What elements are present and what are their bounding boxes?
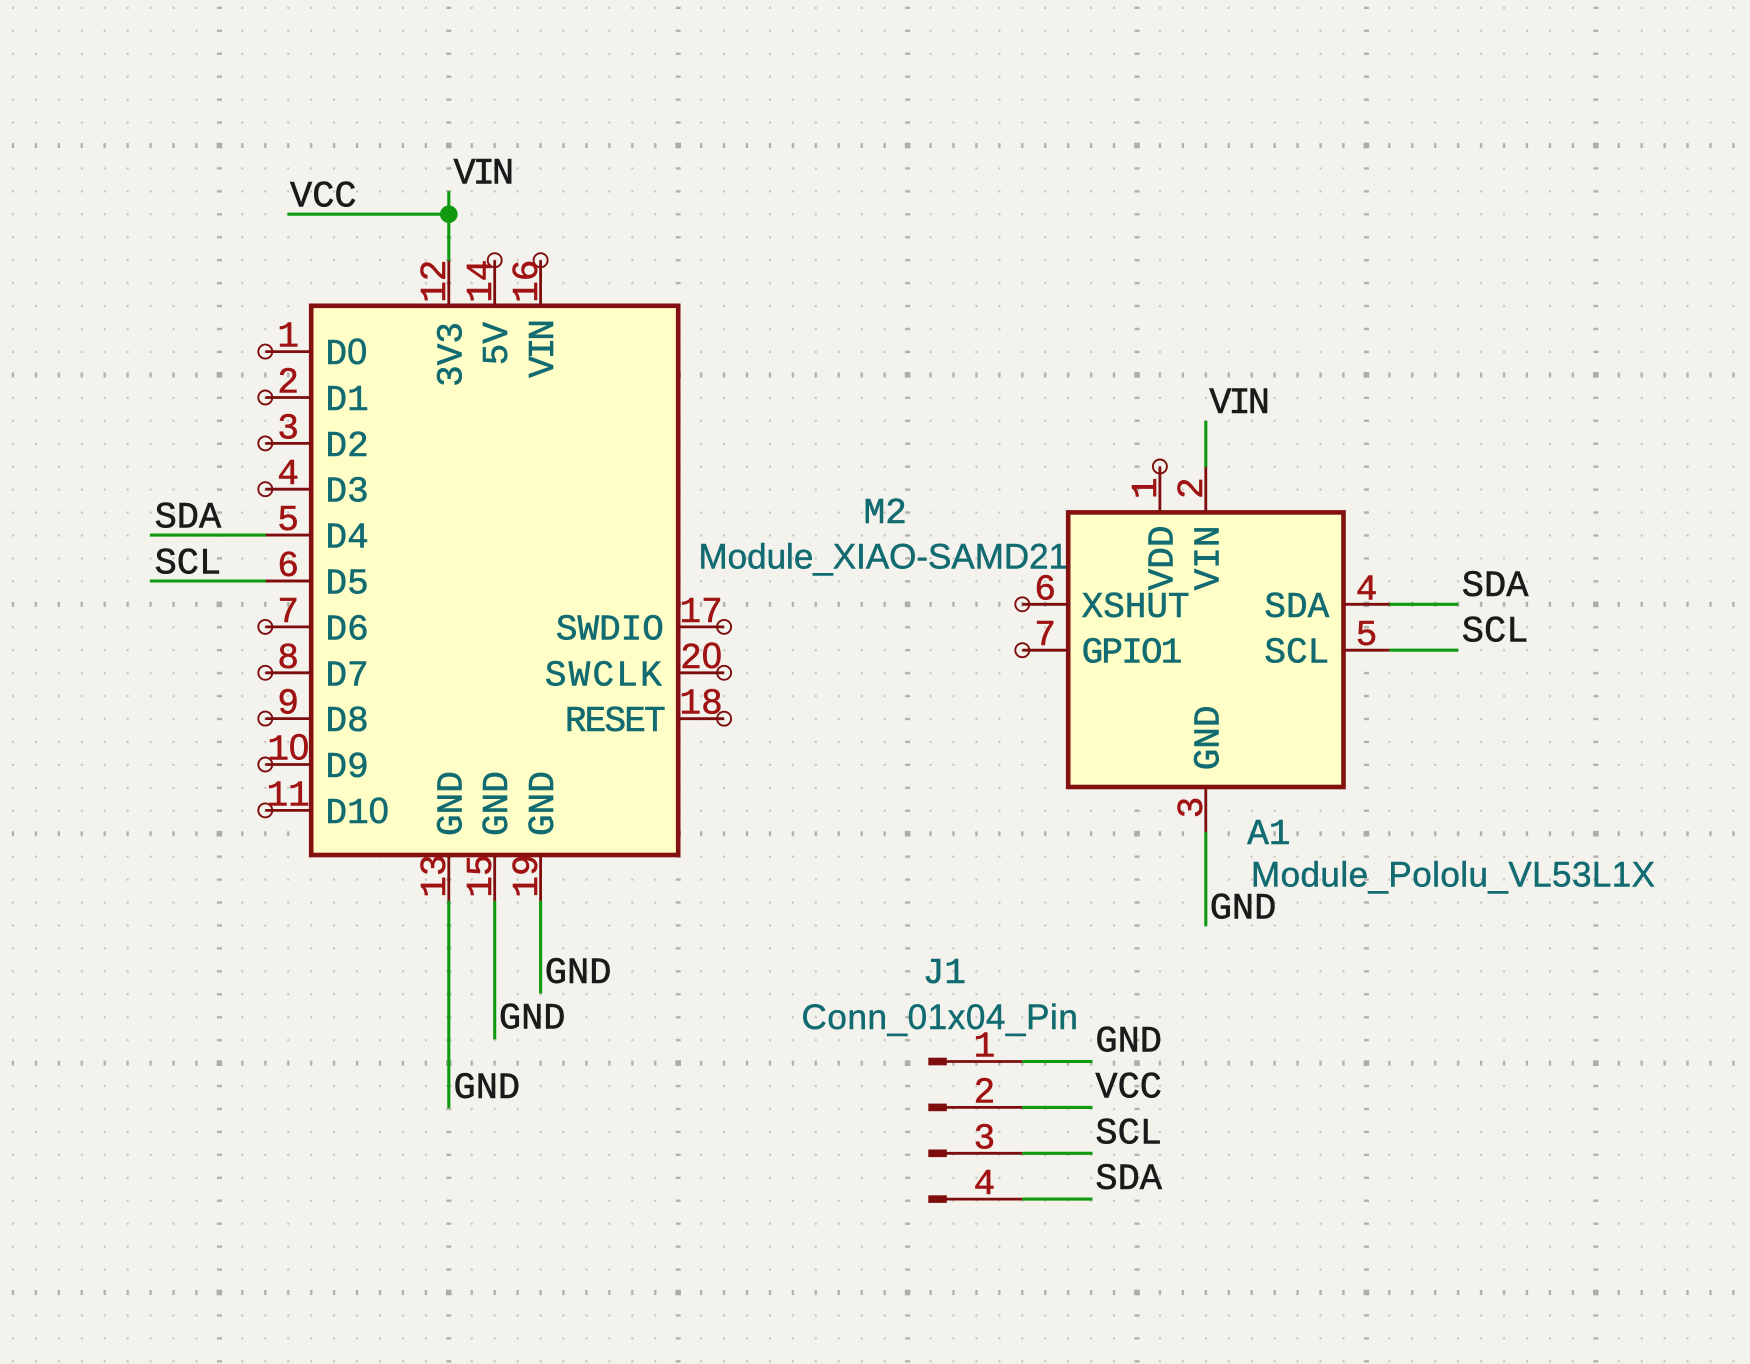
pin 1 of J1 [928,1027,1022,1068]
svg-text:13: 13 [415,854,456,897]
module M2 Module_XIAO-SAMD21 body [311,306,678,855]
pin 20 (SWCLK) of M2 [545,635,731,697]
pin 3 of J1 [928,1118,1022,1159]
svg-text:SDA: SDA [155,498,222,540]
pin 6 (D5) of M2 [265,546,368,605]
svg-text:15: 15 [461,854,502,897]
svg-text:VDD: VDD [1142,526,1183,591]
wire GND from pin 3 of A1 [1204,832,1207,926]
pin 17 (SWDIO) of M2 [556,592,731,651]
pin 4 (SDA) of A1 [1264,569,1389,628]
pin 9 (D8) of M2 [258,684,368,743]
wire SCL from pin 3 of J1 [1022,1152,1092,1155]
pin 4 of J1 [928,1164,1022,1205]
wire VIN to pin 2 of A1 [1204,421,1207,467]
svg-text:GND: GND [1188,705,1229,770]
pin 5 (SCL) of A1 [1264,615,1389,674]
svg-text:SWDIO: SWDIO [556,609,664,650]
svg-text:3: 3 [974,1118,996,1159]
svg-text:D3: D3 [326,472,369,513]
pin 6 (XSHUT) of A1 [1015,569,1189,628]
svg-text:SCL: SCL [155,543,222,585]
svg-text:12: 12 [415,260,456,303]
svg-text:19: 19 [507,854,548,897]
svg-text:SWCLK: SWCLK [545,655,664,696]
svg-text:RESET: RESET [565,701,665,742]
svg-text:GND: GND [431,771,472,836]
svg-text:3V3: 3V3 [431,322,472,387]
svg-text:7: 7 [277,592,299,633]
svg-text:2: 2 [974,1072,996,1113]
svg-text:Module_Pololu_VL53L1X: Module_Pololu_VL53L1X [1251,856,1655,895]
svg-text:D8: D8 [326,701,369,742]
wire SDA from pin 4 of A1 [1389,603,1458,606]
junction at pin 12 [440,205,458,223]
svg-text:16: 16 [507,260,548,303]
svg-text:Conn_01x04_Pin: Conn_01x04_Pin [802,998,1079,1037]
svg-text:VCC: VCC [1095,1067,1162,1109]
pin 3 (GND) of A1 [1172,705,1230,831]
svg-text:M2: M2 [864,493,907,534]
pin 2 (D1) of M2 [258,363,368,422]
svg-text:5V: 5V [477,322,518,366]
pin 7 (D6) of M2 [258,592,368,651]
pin 2 of J1 [928,1072,1022,1113]
svg-text:J1: J1 [923,953,966,994]
svg-text:8: 8 [277,638,299,679]
svg-text:VIN: VIN [523,322,564,378]
pin 8 (D7) of M2 [258,638,368,697]
pin 10 (D9) of M2 [258,727,368,789]
svg-text:GND: GND [499,999,566,1041]
svg-text:9: 9 [277,684,299,725]
svg-text:4: 4 [277,454,299,495]
pin 1 (D0) of M2 [258,317,367,376]
svg-text:D6: D6 [326,609,369,650]
svg-text:6: 6 [1034,569,1056,610]
svg-text:4: 4 [974,1164,996,1205]
svg-text:GND: GND [454,1068,521,1110]
svg-text:VIN: VIN [454,154,512,196]
svg-text:1: 1 [1126,477,1167,499]
wire GND from pin 1 of J1 [1022,1060,1092,1063]
svg-text:VCC: VCC [290,177,357,219]
svg-text:7: 7 [1034,615,1056,656]
svg-text:D5: D5 [326,564,369,605]
wire SCL to pin 6 [150,579,267,582]
svg-text:2: 2 [277,363,299,404]
svg-text:GND: GND [545,953,612,995]
svg-text:SDA: SDA [1462,566,1529,608]
svg-text:XSHUT: XSHUT [1082,587,1190,628]
svg-text:SCL: SCL [1095,1113,1162,1155]
pin 11 (D10) of M2 [258,775,388,834]
wire VCC from pin 2 of J1 [1022,1106,1092,1109]
svg-text:4: 4 [1356,569,1378,610]
svg-text:10: 10 [267,727,309,771]
svg-text:3: 3 [1172,797,1213,819]
svg-text:5: 5 [1356,615,1378,656]
svg-text:11: 11 [267,775,310,816]
wire GND from pin 13 [447,901,450,1108]
svg-text:D10: D10 [326,790,389,834]
wire GND from pin 19 [539,901,542,994]
wire VCC to pin 12 [287,213,448,216]
pin 15 (GND) of M2 [461,771,518,901]
svg-text:D1: D1 [326,380,369,421]
svg-text:D0: D0 [326,331,368,375]
pin 12 (3V3) of M2 [415,260,472,387]
svg-text:VIN: VIN [1209,383,1267,425]
svg-text:GND: GND [477,771,518,836]
svg-text:GND: GND [523,771,564,836]
svg-text:3: 3 [277,408,299,449]
svg-text:D2: D2 [326,426,369,467]
pin 16 (VIN) of M2 [507,253,564,378]
svg-text:GND: GND [1210,889,1277,931]
svg-text:D4: D4 [326,518,369,559]
pin 5 (D4) of M2 [265,500,368,559]
wire VIN stub [447,191,450,261]
svg-text:Module_XIAO-SAMD21: Module_XIAO-SAMD21 [699,538,1069,577]
pin 4 (D3) of M2 [258,454,368,513]
svg-text:GND: GND [1095,1022,1162,1064]
svg-text:SCL: SCL [1264,633,1329,674]
svg-text:2: 2 [1172,477,1213,499]
wire GND from pin 15 [493,901,496,1040]
pin 13 (GND) of M2 [415,771,472,901]
pin 2 (VIN) of A1 [1172,467,1230,591]
svg-text:GPIO1: GPIO1 [1082,633,1181,674]
svg-text:18: 18 [679,684,722,725]
svg-text:1: 1 [277,317,299,358]
svg-text:A1: A1 [1247,814,1290,855]
svg-text:14: 14 [461,260,502,303]
svg-text:SCL: SCL [1462,612,1529,654]
pin 1 (VDD) of A1 [1126,460,1184,591]
pin 19 (GND) of M2 [507,771,564,901]
svg-text:20: 20 [680,635,722,679]
svg-text:17: 17 [679,592,722,633]
svg-text:SDA: SDA [1095,1159,1162,1201]
svg-text:D7: D7 [326,655,369,696]
pin 18 (RESET) of M2 [565,684,731,743]
wire SDA from pin 4 of J1 [1022,1198,1092,1201]
pin 3 (D2) of M2 [258,408,368,467]
svg-text:VIN: VIN [1188,526,1229,591]
pin 7 (GPIO1) of A1 [1015,615,1181,674]
pin 14 (5V) of M2 [461,253,518,365]
module A1 Module_Pololu_VL53L1X body [1068,512,1343,787]
wire SCL from pin 5 of A1 [1389,649,1458,652]
svg-text:SDA: SDA [1264,587,1329,628]
svg-text:D9: D9 [326,747,369,788]
wire SDA to pin 5 [150,534,267,537]
